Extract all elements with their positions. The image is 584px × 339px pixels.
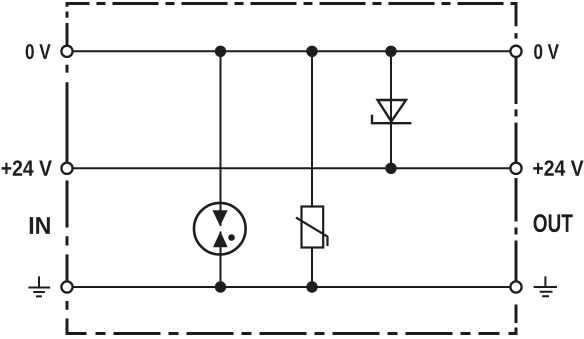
- junction dot ground / varistor: [306, 281, 317, 292]
- wire diode branch: [390, 51, 392, 168]
- junction dot ground / GDT: [215, 281, 226, 292]
- junction dot 0V / GDT: [215, 46, 226, 57]
- terminal IN 0V: [61, 46, 72, 57]
- ground symbol right: [534, 276, 557, 296]
- wire GDT branch lower: [220, 232, 222, 288]
- wire ground bottom horizontal: [67, 286, 516, 288]
- dash-dot border right: [515, 2, 518, 335]
- terminal OUT +24V: [510, 163, 521, 174]
- wire varistor branch lower: [311, 248, 313, 288]
- wire varistor branch upper: [311, 51, 313, 206]
- wire GDT branch upper: [220, 51, 222, 226]
- dash-dot border top: [66, 2, 518, 5]
- suppressor diode V1 cathode bar with bend: [372, 115, 411, 124]
- gas discharge tube F1 bottom arrow: [213, 231, 228, 247]
- label IN: [30, 217, 50, 234]
- label OUT: [534, 214, 573, 232]
- varistor R1 diagonal: [296, 218, 328, 246]
- label +24V right: [533, 160, 583, 175]
- varistor R1 body: [302, 207, 324, 248]
- label 0V left: [26, 44, 51, 59]
- ground symbol left: [28, 276, 50, 296]
- dash-dot border left: [66, 2, 69, 335]
- wire 0V horizontal: [67, 50, 516, 52]
- wire +24V horizontal: [67, 167, 516, 169]
- terminal IN +24V: [61, 163, 72, 174]
- terminal IN ground: [61, 281, 72, 292]
- label +24V left: [2, 160, 52, 175]
- junction dot +24V / diode: [385, 163, 396, 174]
- terminal OUT ground: [510, 281, 521, 292]
- dash-dot border bottom: [66, 332, 518, 335]
- terminal OUT 0V: [510, 46, 521, 57]
- junction dot 0V / varistor: [306, 46, 317, 57]
- gas discharge tube F1 gas dot: [228, 234, 235, 241]
- label 0V right: [534, 44, 559, 59]
- gas discharge tube F1 top arrow: [212, 210, 227, 226]
- gas discharge tube F1 circle: [194, 203, 246, 255]
- suppressor diode V1 triangle: [378, 100, 406, 121]
- junction dot 0V / diode: [385, 46, 396, 57]
